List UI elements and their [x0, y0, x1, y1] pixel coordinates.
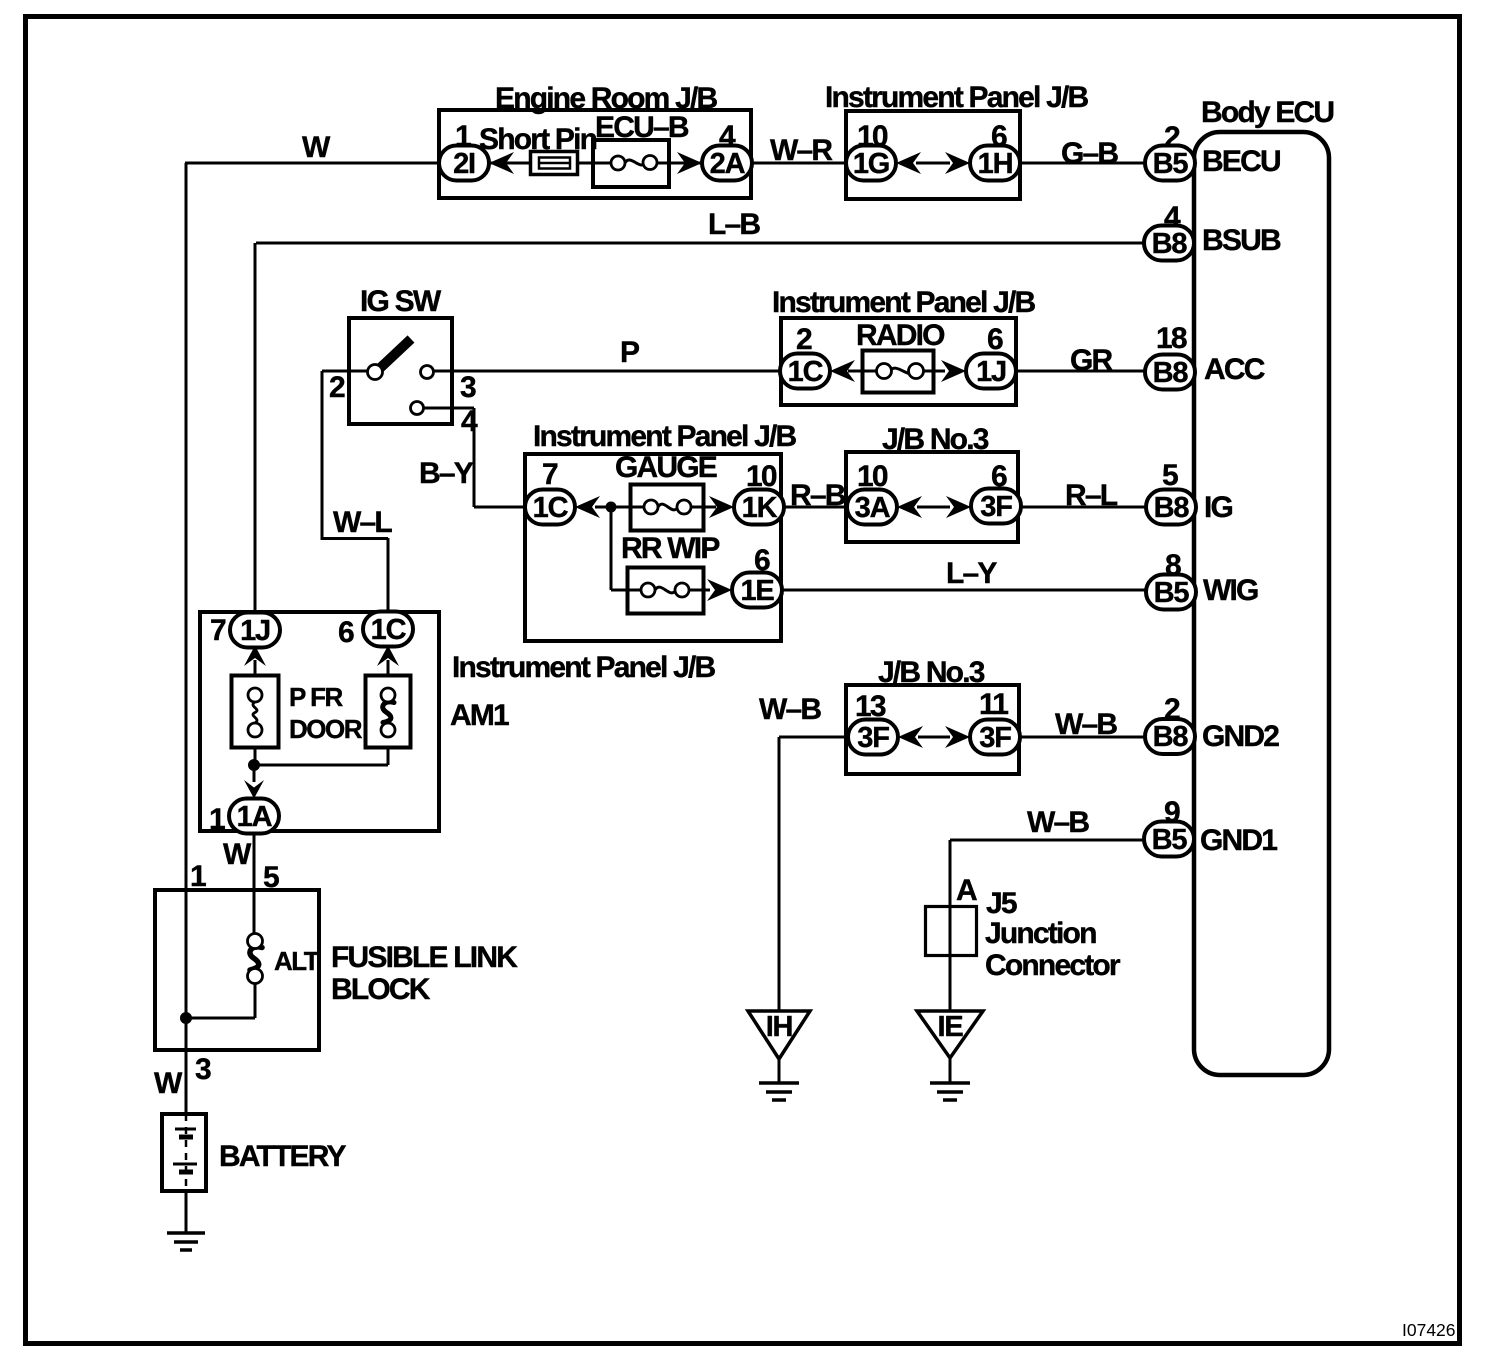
svg-text:ACC: ACC	[1204, 353, 1265, 386]
svg-text:Body ECU: Body ECU	[1201, 96, 1333, 129]
svg-text:10: 10	[857, 460, 888, 493]
svg-text:W–B: W–B	[1055, 708, 1117, 741]
svg-text:Instrument Panel J/B: Instrument Panel J/B	[452, 651, 716, 684]
svg-text:L–Y: L–Y	[946, 557, 997, 590]
svg-text:6: 6	[991, 460, 1007, 493]
svg-text:I07426: I07426	[1402, 1320, 1456, 1340]
svg-text:4: 4	[1164, 201, 1181, 234]
svg-text:B8: B8	[1153, 357, 1189, 389]
svg-text:BECU: BECU	[1202, 145, 1280, 178]
svg-text:W: W	[154, 1067, 183, 1100]
svg-text:1J: 1J	[240, 615, 270, 647]
svg-text:10: 10	[857, 120, 888, 153]
svg-text:AM1: AM1	[450, 699, 509, 732]
svg-text:L–B: L–B	[708, 208, 760, 241]
svg-text:G–B: G–B	[1061, 137, 1118, 170]
svg-text:GND1: GND1	[1200, 824, 1277, 857]
svg-text:Junction: Junction	[985, 917, 1096, 950]
svg-text:4: 4	[461, 405, 478, 438]
svg-text:B–Y: B–Y	[419, 457, 474, 490]
svg-text:3: 3	[195, 1053, 211, 1086]
svg-text:3A: 3A	[855, 492, 891, 524]
svg-text:W: W	[302, 131, 331, 164]
svg-text:1C: 1C	[788, 356, 824, 388]
svg-text:R–L: R–L	[1065, 479, 1118, 512]
svg-text:A: A	[956, 874, 977, 907]
svg-text:18: 18	[1156, 322, 1187, 355]
svg-text:3F: 3F	[979, 722, 1011, 754]
svg-text:10: 10	[746, 460, 777, 493]
svg-text:IG: IG	[1204, 491, 1233, 524]
svg-text:J/B No.3: J/B No.3	[878, 656, 985, 689]
svg-text:BLOCK: BLOCK	[331, 973, 431, 1006]
svg-text:1C: 1C	[371, 614, 407, 646]
svg-text:1E: 1E	[740, 575, 774, 607]
svg-text:W–B: W–B	[1027, 806, 1089, 839]
svg-text:J/B No.3: J/B No.3	[882, 423, 989, 456]
svg-text:6: 6	[338, 616, 354, 649]
svg-text:IG SW: IG SW	[360, 285, 442, 318]
svg-text:P FR: P FR	[289, 682, 343, 712]
svg-text:Connector: Connector	[985, 949, 1121, 982]
svg-text:ECU–B: ECU–B	[595, 111, 689, 144]
svg-text:GAUGE: GAUGE	[615, 451, 717, 484]
svg-text:2: 2	[796, 323, 812, 356]
svg-text:11: 11	[979, 688, 1008, 721]
svg-text:2: 2	[1164, 693, 1180, 726]
svg-text:B8: B8	[1154, 492, 1190, 524]
svg-text:RR WIP: RR WIP	[621, 532, 719, 565]
svg-text:ALT: ALT	[274, 946, 320, 976]
svg-text:WIG: WIG	[1203, 574, 1258, 607]
svg-text:FUSIBLE LINK: FUSIBLE LINK	[331, 941, 518, 974]
svg-text:Instrument Panel J/B: Instrument Panel J/B	[772, 286, 1036, 319]
svg-text:9: 9	[1164, 796, 1180, 829]
svg-text:Instrument Panel J/B: Instrument Panel J/B	[825, 81, 1089, 114]
svg-text:1: 1	[209, 803, 225, 836]
svg-text:2: 2	[329, 371, 345, 404]
svg-text:P: P	[620, 336, 639, 369]
svg-text:IH: IH	[766, 1011, 793, 1043]
svg-text:13: 13	[855, 690, 886, 723]
svg-text:5: 5	[263, 861, 279, 894]
svg-text:BATTERY: BATTERY	[219, 1140, 347, 1173]
svg-text:Instrument Panel J/B: Instrument Panel J/B	[533, 420, 797, 453]
svg-text:1: 1	[190, 860, 206, 893]
svg-text:7: 7	[542, 458, 558, 491]
svg-text:8: 8	[1165, 549, 1181, 582]
svg-text:W–L: W–L	[333, 506, 392, 539]
svg-text:IE: IE	[938, 1011, 964, 1043]
svg-text:DOOR: DOOR	[289, 714, 363, 744]
svg-text:1: 1	[455, 120, 471, 153]
svg-text:GR: GR	[1070, 344, 1114, 377]
svg-text:BSUB: BSUB	[1202, 224, 1281, 257]
svg-text:3F: 3F	[857, 722, 889, 754]
svg-text:1A: 1A	[237, 801, 273, 833]
svg-text:7: 7	[210, 614, 226, 647]
svg-text:W: W	[223, 838, 252, 871]
svg-text:J5: J5	[986, 887, 1017, 920]
svg-text:GND2: GND2	[1202, 720, 1279, 753]
svg-text:W–R: W–R	[770, 134, 833, 167]
svg-text:4: 4	[719, 120, 736, 153]
svg-text:1C: 1C	[533, 492, 569, 524]
svg-text:6: 6	[991, 120, 1007, 153]
svg-text:6: 6	[754, 544, 770, 577]
svg-text:W–B: W–B	[759, 693, 821, 726]
svg-text:RADIO: RADIO	[856, 319, 945, 352]
svg-text:Short Pin: Short Pin	[479, 123, 597, 156]
svg-text:R–B: R–B	[790, 479, 846, 512]
svg-text:2: 2	[1164, 121, 1180, 154]
svg-text:5: 5	[1162, 459, 1178, 492]
svg-text:6: 6	[987, 323, 1003, 356]
svg-text:3F: 3F	[980, 491, 1012, 523]
svg-text:1K: 1K	[742, 492, 778, 524]
svg-text:1J: 1J	[976, 356, 1006, 388]
svg-text:3: 3	[460, 371, 476, 404]
